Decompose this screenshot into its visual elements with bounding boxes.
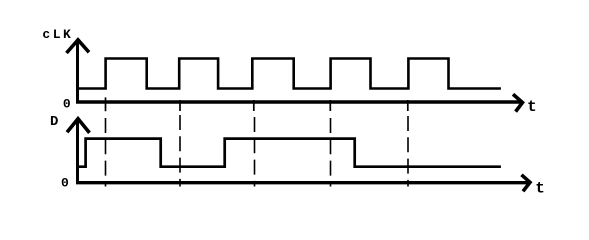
- svg-text:0: 0: [61, 176, 69, 191]
- svg-text:t: t: [527, 98, 537, 116]
- svg-text:D: D: [50, 114, 58, 130]
- svg-text:cLK: cLK: [42, 27, 73, 42]
- svg-text:0: 0: [63, 96, 71, 111]
- svg-text:t: t: [535, 180, 545, 198]
